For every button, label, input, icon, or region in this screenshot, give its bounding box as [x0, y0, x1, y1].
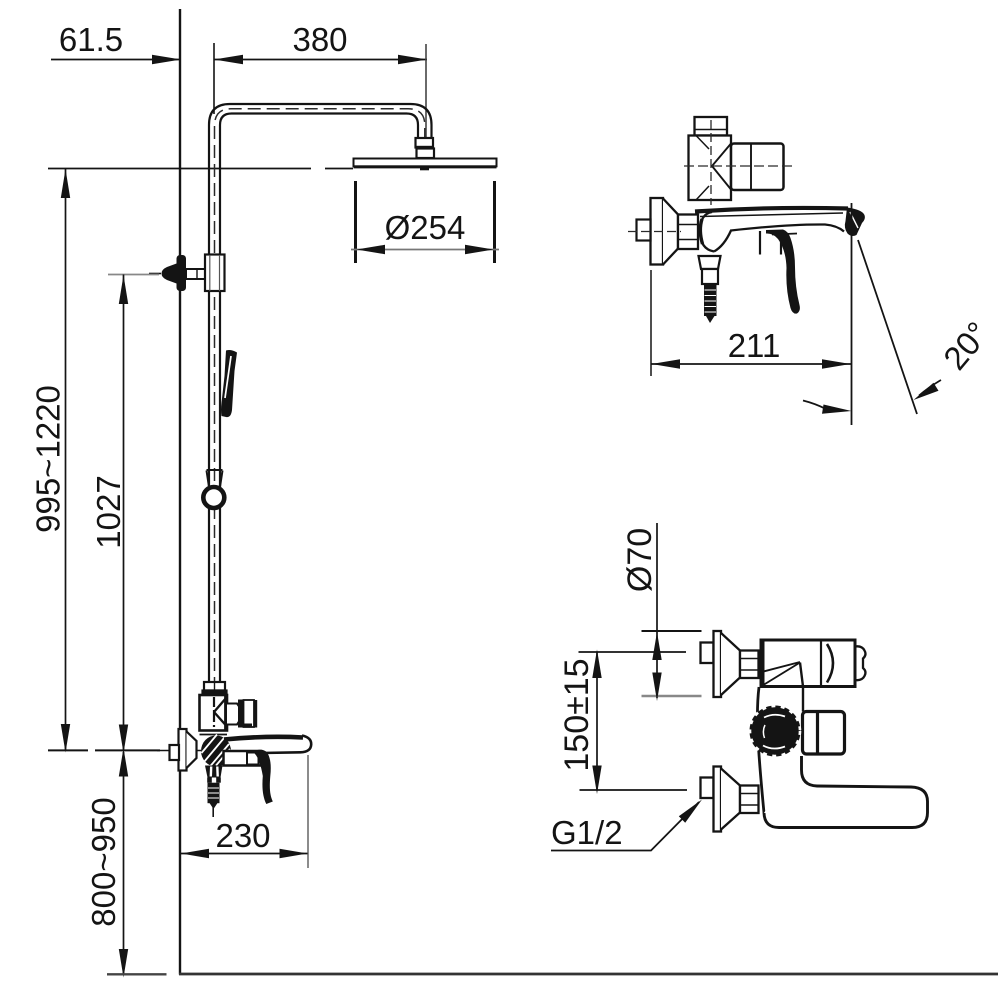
head connector nut: [416, 138, 434, 148]
dim 995-1220 line: [65, 169, 67, 751]
dim 150 bottom tick: [580, 789, 688, 791]
lever main view: [255, 750, 273, 804]
bracket tick: [108, 274, 159, 276]
head level reference line: [48, 168, 311, 170]
valve body main view: [200, 695, 228, 731]
dim 230 left arrow: [181, 849, 209, 858]
diverter knob side view: [695, 117, 728, 136]
top inlet flange plate: [714, 631, 722, 697]
G1/2 leader: [551, 802, 699, 851]
G_DIMS_RIGHT: [551, 523, 702, 851]
hand shower: [221, 350, 237, 417]
dim D254 right extension: [493, 181, 496, 263]
spout front view: [803, 712, 845, 755]
wall flange plate side view: [651, 198, 664, 265]
svg-text:61.5: 61.5: [59, 21, 123, 58]
ball joint side view: [700, 212, 714, 252]
svg-text:800~950: 800~950: [85, 797, 122, 926]
hose outlet side view: [699, 256, 721, 269]
dim D70 top tick: [642, 630, 702, 632]
dim 380 right arrow: [398, 55, 427, 64]
dim 150 line: [596, 652, 598, 790]
dim 230 right arrow: [280, 849, 308, 858]
funnel wedge: [762, 662, 801, 686]
pipe joint above ring: [207, 470, 223, 487]
supply stub side view: [637, 220, 651, 241]
dim D254 line: [351, 249, 499, 251]
dim 380 line: [214, 59, 427, 61]
threaded connector side view: [704, 284, 717, 316]
bottom inlet flange plate: [714, 767, 722, 832]
vertical reference line at spout tip: [851, 203, 853, 425]
dim D70 arrows: [652, 632, 661, 660]
dim D254 left extension: [354, 181, 357, 263]
dim 380 left arrow: [214, 55, 243, 64]
spout main view top edge: [224, 737, 303, 740]
diverter knob front view: [752, 708, 798, 754]
angle leader left arrow: [803, 401, 826, 410]
head connector lower: [417, 149, 435, 159]
svg-text:Ø254: Ø254: [385, 209, 466, 246]
dim 150 top tick: [579, 651, 687, 653]
shower arm inner edge: [220, 114, 418, 683]
dim 1027 line: [123, 275, 125, 751]
svg-text:380: 380: [292, 21, 347, 58]
floor line: [179, 973, 998, 976]
G_DIMS_TOP: [48, 21, 499, 263]
top inlet hex nut: [740, 651, 759, 679]
handle centreline dashed: [684, 165, 792, 167]
svg-text:G1/2: G1/2: [551, 814, 623, 851]
right attachment main view: [227, 704, 242, 725]
body centreline vertical dashed: [710, 120, 712, 205]
valve body side view: [689, 136, 732, 201]
dim 211 left extension: [650, 270, 652, 376]
G_MIXER_MAIN: [157, 682, 311, 868]
wall bracket bar: [177, 255, 187, 291]
svg-text:230: 230: [215, 817, 270, 854]
dim 211 line: [651, 363, 851, 365]
dim D254 left arrow: [357, 245, 386, 254]
dim D70 extension line: [656, 523, 658, 698]
G_SIDE_VIEW: [628, 117, 996, 425]
mixer centreline through wall: [157, 750, 201, 752]
G_FRONT_VIEW: [701, 631, 928, 832]
G_COLUMN: [149, 104, 497, 690]
threaded hose connector: [208, 783, 220, 804]
spout main view end cap: [261, 736, 311, 754]
wall line: [179, 9, 181, 975]
20 degree slanted line: [858, 240, 917, 414]
shower head bottom edge: [354, 166, 497, 169]
arm centreline dashed: [215, 109, 425, 690]
wall bracket pin: [186, 269, 206, 279]
mixer level ticks: [48, 749, 88, 751]
pipe adapter upper: [204, 682, 225, 691]
wall bracket supply stub line: [149, 273, 161, 275]
svg-text:1027: 1027: [90, 475, 127, 548]
wall bracket cone: [162, 264, 177, 284]
valve body front view: [761, 640, 855, 687]
svg-text:Ø70: Ø70: [621, 528, 659, 592]
extension line head centre: [425, 44, 427, 137]
body under spout: [759, 231, 761, 255]
handle bar front view: [764, 756, 928, 828]
handle side view: [731, 144, 784, 191]
top inlet stub front view: [701, 643, 714, 664]
spout body under: [224, 751, 262, 766]
svg-text:211: 211: [728, 327, 781, 364]
dim 61.5 line: [51, 59, 181, 61]
shower head centre nub: [420, 168, 429, 171]
wall flange plate main view: [179, 729, 187, 771]
lever side view: [766, 230, 800, 314]
top inlet cone: [721, 633, 740, 695]
shower arm outer edge: [209, 104, 432, 682]
bottom inlet hex nut: [740, 786, 759, 814]
body column front view: [757, 687, 764, 813]
wall flange cone side view: [663, 199, 678, 265]
spout side view underside: [714, 224, 844, 251]
shower head slab: [354, 159, 497, 167]
cartridge cap front view: [855, 646, 865, 680]
dim D254 right arrow: [465, 245, 494, 254]
bottom inlet stub front view: [701, 778, 714, 799]
dim D70 bottom tick: [642, 695, 702, 697]
inlet centreline dashed: [628, 231, 681, 233]
slider housing: [205, 255, 225, 292]
dim 800-950 line: [123, 752, 125, 974]
floor tick: [107, 973, 167, 975]
extension line pipe centre: [213, 43, 215, 114]
wall flange cone main view: [187, 732, 197, 769]
supply stub main view: [170, 745, 180, 760]
spout side view top edge: [695, 208, 848, 212]
G_DIMS_LEFT: [30, 169, 167, 978]
dim 61.5 arrow: [152, 55, 181, 64]
dim 230 right extension: [307, 755, 309, 868]
svg-text:995~1220: 995~1220: [30, 385, 67, 533]
dim 230 line: [181, 853, 308, 855]
spout tip aerator: [845, 208, 865, 236]
slider ring: [203, 487, 224, 508]
outlet trapezoid: [205, 766, 223, 778]
angle leader right arrow: [919, 380, 941, 396]
svg-text:150±15: 150±15: [558, 658, 596, 771]
hatched ball joint: [201, 736, 231, 767]
hex nut side view: [678, 215, 698, 250]
bottom inlet cone: [721, 769, 740, 830]
pipe adapter lower dark band: [203, 691, 227, 697]
